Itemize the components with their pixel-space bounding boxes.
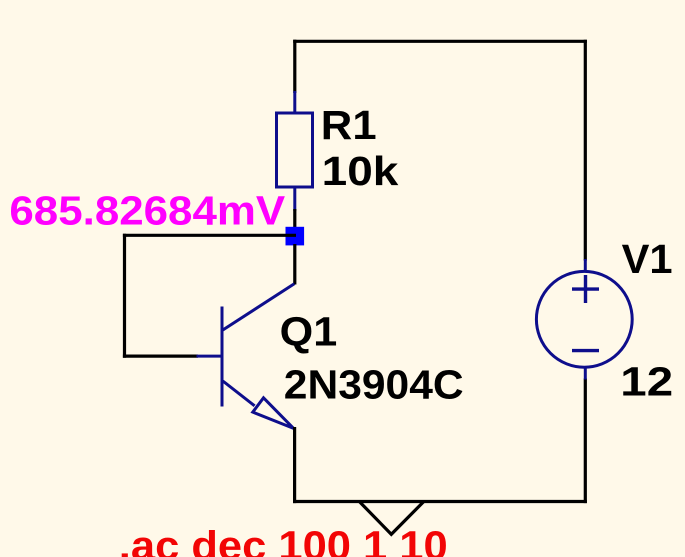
bottom lead — [584, 367, 587, 380]
wire left vertical down — [123, 234, 126, 358]
svg-text:12: 12 — [620, 359, 673, 405]
wire left vertical from top to resistor — [293, 40, 296, 93]
wire emitter to bottom — [293, 427, 296, 503]
resistor R1 — [277, 91, 313, 211]
wire collector vertical (node to transistor) — [293, 244, 296, 285]
node junction square — [286, 227, 305, 246]
base bar — [221, 307, 224, 407]
svg-text:R1: R1 — [321, 102, 377, 148]
base lead — [197, 355, 223, 358]
ground — [359, 502, 424, 535]
collector diagonal — [223, 284, 294, 330]
minus sign — [572, 349, 599, 352]
svg-text:10k: 10k — [322, 148, 399, 194]
svg-text:.ac dec 100 1 10: .ac dec 100 1 10 — [119, 522, 448, 557]
plus sign — [572, 275, 599, 303]
wire right vertical bottom (V1 to bottom) — [584, 379, 587, 504]
emitter diagonal — [223, 381, 255, 406]
svg-text:2N3904C: 2N3904C — [284, 362, 464, 408]
top lead — [584, 259, 587, 272]
wire node to left — [123, 234, 296, 237]
wire right vertical top (to V1) — [584, 40, 587, 261]
wire bottom horizontal — [293, 500, 587, 503]
svg-text:V1: V1 — [622, 236, 673, 282]
voltage source V1 — [536, 259, 632, 380]
transistor Q1 — [197, 284, 295, 429]
circle — [536, 271, 632, 367]
svg-text:685.82684mV: 685.82684mV — [9, 188, 285, 234]
wire top horizontal — [293, 40, 587, 43]
svg-text:Q1: Q1 — [280, 309, 338, 355]
emitter arrowhead — [253, 398, 294, 429]
wire resistor to node — [293, 209, 296, 236]
wire bottom horizontal to base — [123, 355, 198, 358]
